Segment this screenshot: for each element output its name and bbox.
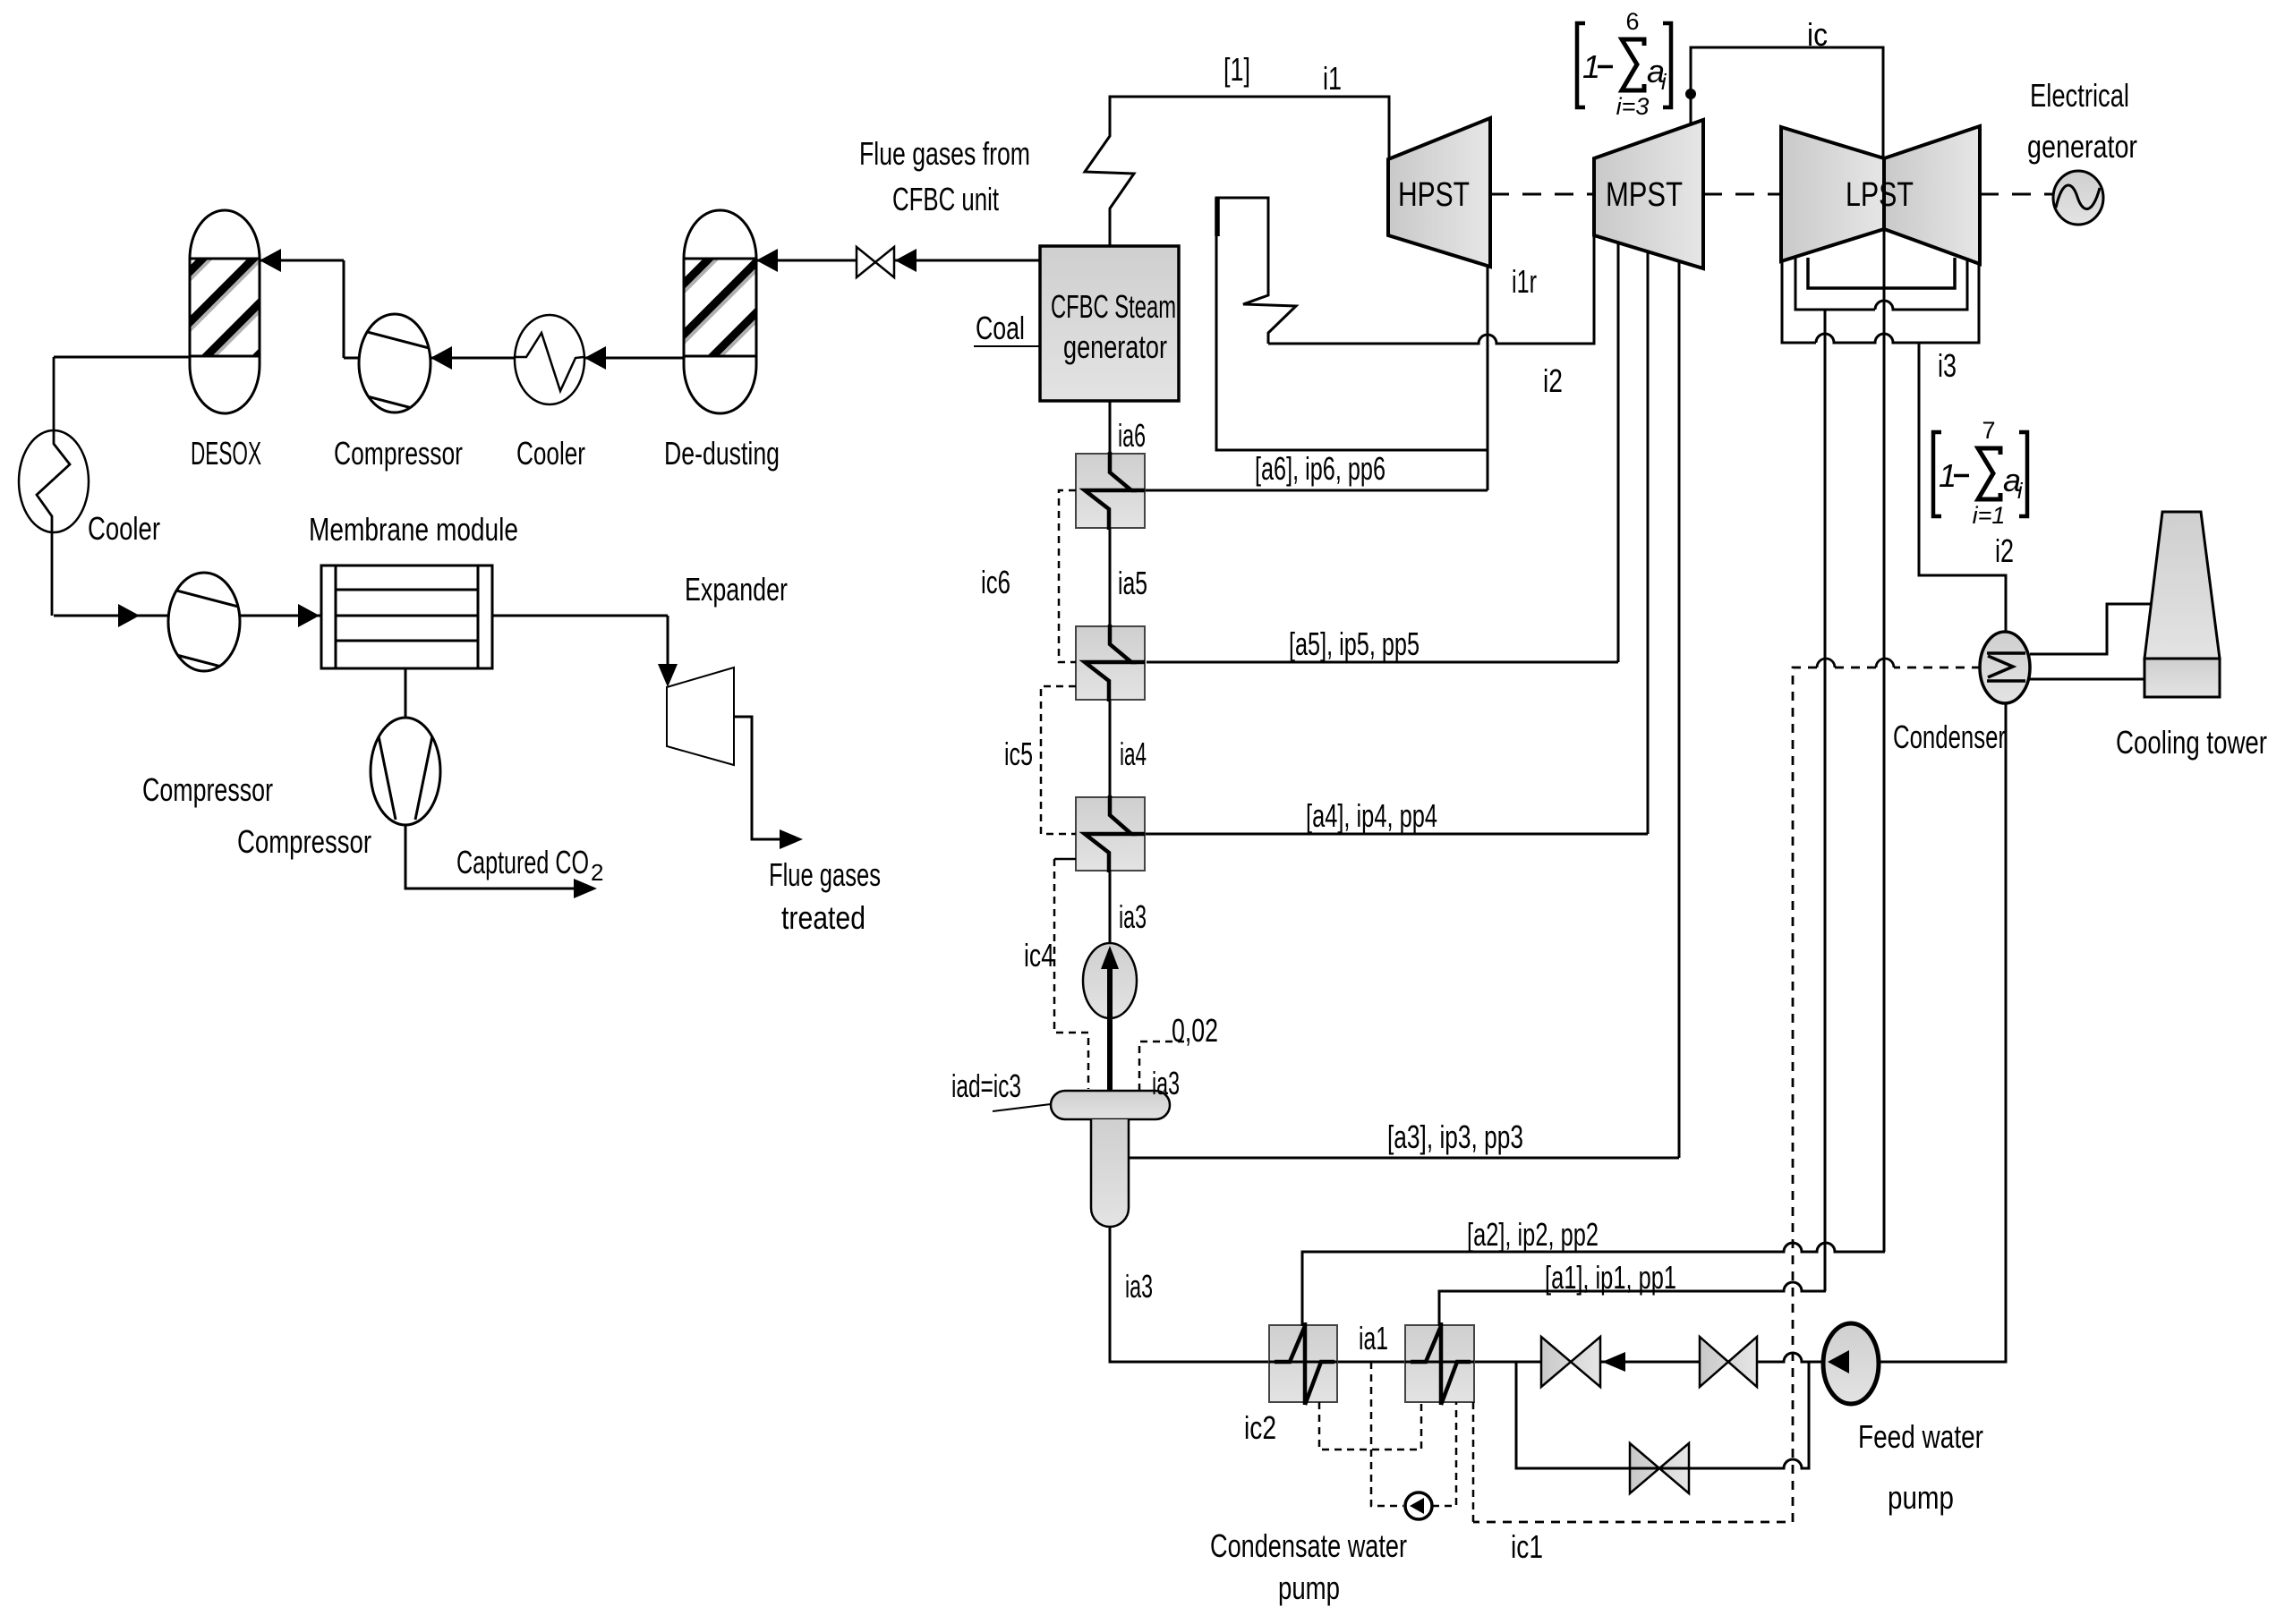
svg-text:Flue gases from: Flue gases from <box>859 135 1030 172</box>
svg-text:ic4: ic4 <box>1024 937 1054 974</box>
svg-text:7: 7 <box>1982 417 1995 444</box>
svg-text:[a2], ip2, pp2: [a2], ip2, pp2 <box>1467 1216 1599 1253</box>
svg-text:Flue gases: Flue gases <box>769 856 881 893</box>
svg-text:pump: pump <box>1888 1479 1954 1516</box>
svg-text:Cooling tower: Cooling tower <box>2116 724 2267 761</box>
svg-text:Compressor: Compressor <box>334 435 463 472</box>
svg-text:Condensate water: Condensate water <box>1210 1527 1407 1564</box>
svg-text:6: 6 <box>1625 8 1639 35</box>
svg-text:[a4], ip4, pp4: [a4], ip4, pp4 <box>1306 797 1437 834</box>
svg-text:[a1], ip1, pp1: [a1], ip1, pp1 <box>1545 1259 1676 1296</box>
svg-text:De-dusting: De-dusting <box>664 435 780 472</box>
svg-text:ia3: ia3 <box>1152 1065 1180 1101</box>
svg-text:CFBC Steam: CFBC Steam <box>1051 288 1176 325</box>
svg-text:0,02: 0,02 <box>1172 1012 1218 1049</box>
svg-text:LPST: LPST <box>1846 176 1914 214</box>
svg-text:i2: i2 <box>1543 362 1563 399</box>
svg-text:Cooler: Cooler <box>88 510 160 547</box>
svg-text:i3: i3 <box>1938 347 1957 384</box>
svg-text:i1r: i1r <box>1512 263 1537 300</box>
svg-text:[a6], ip6, pp6: [a6], ip6, pp6 <box>1255 450 1385 487</box>
svg-text:ic: ic <box>1807 16 1828 53</box>
svg-text:i1: i1 <box>1323 60 1342 97</box>
svg-text:ic6: ic6 <box>981 564 1010 600</box>
svg-text:Compressor: Compressor <box>142 771 273 808</box>
svg-text:Membrane module: Membrane module <box>309 511 518 548</box>
svg-text:CFBC unit: CFBC unit <box>892 181 999 217</box>
svg-text:[a5], ip5, pp5: [a5], ip5, pp5 <box>1289 625 1420 662</box>
svg-text:2: 2 <box>591 859 603 886</box>
svg-text:iad=ic3: iad=ic3 <box>951 1067 1021 1104</box>
svg-text:MPST: MPST <box>1606 176 1683 214</box>
svg-text:Coal: Coal <box>976 310 1025 346</box>
svg-text:Cooler: Cooler <box>516 435 585 472</box>
svg-text:treated: treated <box>781 899 865 936</box>
svg-text:Compressor: Compressor <box>237 823 371 860</box>
svg-text:ia3: ia3 <box>1125 1268 1153 1305</box>
svg-text:Electrical: Electrical <box>2030 77 2129 114</box>
svg-text:Feed water: Feed water <box>1858 1418 1983 1455</box>
svg-text:[1]: [1] <box>1223 51 1250 88</box>
svg-text:ic2: ic2 <box>1244 1409 1276 1446</box>
svg-text:i=1: i=1 <box>1973 502 2006 529</box>
svg-text:i=3: i=3 <box>1616 93 1650 120</box>
svg-text:ia6: ia6 <box>1118 417 1146 454</box>
svg-text:DESOX: DESOX <box>191 435 261 472</box>
svg-text:ic5: ic5 <box>1004 735 1033 772</box>
svg-text:ia5: ia5 <box>1118 565 1147 601</box>
svg-text:ia1: ia1 <box>1359 1320 1388 1356</box>
svg-text:ia3: ia3 <box>1119 898 1147 935</box>
svg-text:Condenser: Condenser <box>1893 718 2006 755</box>
svg-text:[a3], ip3, pp3: [a3], ip3, pp3 <box>1387 1118 1523 1155</box>
svg-text:ic1: ic1 <box>1511 1528 1543 1565</box>
svg-text:pump: pump <box>1278 1569 1340 1606</box>
svg-text:Captured CO: Captured CO <box>456 844 589 880</box>
svg-text:HPST: HPST <box>1398 176 1470 214</box>
svg-text:ia4: ia4 <box>1120 735 1147 772</box>
svg-text:Expander: Expander <box>685 571 788 608</box>
svg-text:generator: generator <box>1063 328 1167 365</box>
svg-text:generator: generator <box>2027 128 2137 165</box>
svg-text:i2: i2 <box>1995 532 2014 569</box>
